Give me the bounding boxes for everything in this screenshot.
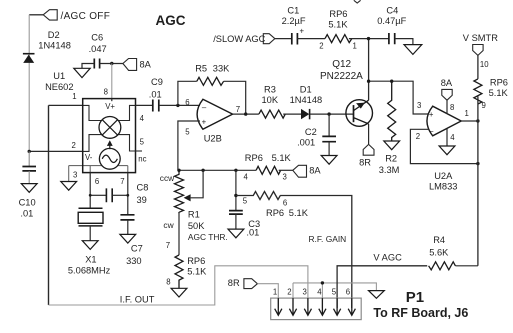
svg-text:R1: R1 bbox=[188, 209, 200, 219]
resistor RP6 pins 7-8 bbox=[175, 255, 183, 288]
diode D1 bbox=[301, 109, 309, 119]
svg-text:5.1K: 5.1K bbox=[272, 153, 292, 163]
svg-text:7: 7 bbox=[166, 241, 170, 250]
junction U2A feedback bbox=[476, 162, 479, 165]
svg-text:10K: 10K bbox=[262, 95, 279, 105]
svg-text:To RF Board, J6: To RF Board, J6 bbox=[373, 306, 468, 320]
svg-text:4: 4 bbox=[317, 288, 322, 297]
svg-text:1N4148: 1N4148 bbox=[290, 95, 323, 105]
svg-text:U2B: U2B bbox=[204, 134, 222, 144]
resistor R5 bbox=[197, 77, 224, 85]
svg-text:C8: C8 bbox=[137, 182, 149, 192]
oscillator of U1 bbox=[99, 148, 120, 169]
svg-text:V-: V- bbox=[85, 153, 93, 162]
capacitor C8 bbox=[90, 194, 106, 196]
wire U1 pin 2 bbox=[29, 150, 82, 152]
svg-text:Q12: Q12 bbox=[332, 59, 351, 70]
pin 5 nc stub bbox=[136, 150, 143, 152]
svg-text:2.2µF: 2.2µF bbox=[282, 16, 306, 26]
svg-text:D2: D2 bbox=[48, 30, 60, 40]
svg-text:cw: cw bbox=[163, 220, 174, 230]
junction U2A output bbox=[476, 119, 479, 122]
junction P1 pin 4 ground bbox=[321, 281, 324, 284]
wire U2A pin 2 feedback bbox=[410, 129, 478, 163]
capacitor C3 bbox=[229, 211, 243, 215]
ground under X1 bbox=[82, 241, 98, 250]
wire I.F. OUT route to P1 pin 3 bbox=[49, 266, 308, 308]
svg-text:6: 6 bbox=[95, 177, 99, 186]
svg-text:1: 1 bbox=[273, 288, 277, 297]
junction R1 wiper bbox=[201, 169, 204, 172]
svg-text:/AGC OFF: /AGC OFF bbox=[61, 11, 111, 22]
svg-text:C6: C6 bbox=[91, 33, 103, 43]
svg-text:6: 6 bbox=[283, 198, 287, 207]
svg-text:C2: C2 bbox=[305, 127, 317, 137]
mixer of U1 bbox=[99, 117, 121, 139]
ground pin 3 bbox=[61, 182, 77, 191]
svg-text:3: 3 bbox=[303, 288, 307, 297]
svg-text:C10: C10 bbox=[19, 197, 36, 207]
wire pin1 vertical to I.F. OUT bbox=[48, 105, 50, 305]
ground under C6 bbox=[74, 68, 90, 77]
svg-text:+: + bbox=[300, 27, 305, 36]
junction C6 node bbox=[110, 62, 113, 65]
diode D2 bbox=[23, 53, 35, 55]
svg-text:8R: 8R bbox=[228, 278, 240, 288]
svg-text:5.1K: 5.1K bbox=[328, 19, 348, 29]
ground RP6 pin 8 bbox=[171, 288, 187, 297]
svg-text:1N4148: 1N4148 bbox=[38, 40, 71, 50]
svg-text:–: – bbox=[202, 103, 207, 112]
svg-text:AGC: AGC bbox=[156, 13, 186, 28]
svg-text:8A: 8A bbox=[140, 60, 152, 70]
svg-text:6: 6 bbox=[346, 288, 350, 297]
wire pin 7 down bbox=[127, 173, 129, 215]
wire U1 pin 8 inner stub bbox=[111, 99, 113, 102]
svg-text:C7: C7 bbox=[131, 244, 143, 254]
wire U2A output bbox=[461, 120, 478, 122]
svg-text:RP6: RP6 bbox=[245, 153, 263, 163]
rail collector to U2A pin 3 bbox=[369, 81, 429, 114]
wire /AGC OFF to left rail bbox=[29, 14, 43, 16]
svg-text:+: + bbox=[202, 118, 207, 127]
svg-text:C4: C4 bbox=[386, 6, 398, 16]
wire C6 to 8A tag bbox=[100, 63, 123, 65]
svg-text:50K: 50K bbox=[188, 221, 205, 231]
svg-text:R.F. GAIN: R.F. GAIN bbox=[309, 234, 347, 244]
resistor R3 bbox=[259, 110, 285, 118]
U1 internal pin stubs bbox=[83, 105, 102, 120]
wire left vertical rail bbox=[28, 15, 30, 152]
svg-text:RP6: RP6 bbox=[187, 256, 205, 266]
ground under C4 bbox=[404, 45, 422, 55]
wire 8A node down to U1 pin 8 bbox=[111, 64, 113, 102]
svg-text:4: 4 bbox=[244, 172, 249, 181]
wire C9 to U2B pin 6 bbox=[159, 104, 200, 106]
svg-text:C9: C9 bbox=[151, 77, 163, 87]
svg-text:1: 1 bbox=[465, 109, 469, 118]
svg-text:3: 3 bbox=[283, 172, 287, 181]
svg-text:U1: U1 bbox=[53, 71, 65, 81]
svg-text:8: 8 bbox=[166, 277, 170, 286]
svg-text:7: 7 bbox=[236, 105, 240, 114]
svg-text:R4: R4 bbox=[433, 235, 445, 245]
wire U2A pin 4 to ground bbox=[446, 129, 448, 146]
connector 8A above U2A bbox=[442, 89, 452, 100]
svg-text:6: 6 bbox=[185, 98, 189, 107]
wire R1 to RP6 7-8 bbox=[178, 212, 180, 255]
junction C2 node bbox=[327, 112, 330, 115]
svg-text:5.1K: 5.1K bbox=[289, 208, 309, 218]
svg-text:RP6: RP6 bbox=[266, 208, 284, 218]
IC U1 box bbox=[83, 99, 136, 173]
svg-text:5: 5 bbox=[140, 137, 145, 146]
wire U1 pin 3 and internal bottom line bbox=[69, 165, 128, 167]
connector 8R below Q12 bbox=[363, 144, 374, 155]
wire U2A pin 8 bbox=[446, 100, 448, 114]
ground under C10 bbox=[21, 184, 37, 193]
svg-text:9: 9 bbox=[482, 101, 486, 110]
svg-text:I.F. OUT: I.F. OUT bbox=[120, 294, 155, 304]
svg-text:2: 2 bbox=[72, 141, 76, 150]
svg-text:R3: R3 bbox=[264, 85, 276, 95]
svg-text:330: 330 bbox=[126, 256, 142, 266]
svg-text:U2A: U2A bbox=[434, 171, 453, 181]
capacitor C2 bbox=[328, 114, 330, 136]
ground near P1 bbox=[369, 291, 385, 299]
svg-text:.01: .01 bbox=[246, 228, 259, 238]
wire U2B pin 5 bbox=[178, 121, 200, 170]
tag tip cut at top bbox=[354, 0, 361, 3]
resistor RP6 pins 5-6 bbox=[236, 192, 280, 200]
op-amp U2A bbox=[427, 106, 461, 136]
feedback loop R5 bbox=[178, 81, 197, 105]
svg-text:+: + bbox=[429, 110, 434, 119]
svg-text:R2: R2 bbox=[385, 153, 397, 163]
capacitor C7 bbox=[120, 215, 134, 220]
resistor R4 bbox=[429, 262, 456, 270]
ground under C2 bbox=[321, 156, 337, 165]
svg-text:.047: .047 bbox=[89, 44, 107, 54]
svg-text:8A: 8A bbox=[309, 166, 321, 176]
connector /AGC OFF bbox=[43, 10, 57, 20]
svg-text:2: 2 bbox=[416, 132, 420, 141]
junction C4 rail bbox=[367, 37, 370, 40]
svg-text:4: 4 bbox=[140, 114, 145, 123]
junction node pin 2 bbox=[28, 150, 31, 153]
svg-text:5.6K: 5.6K bbox=[429, 248, 449, 258]
wire Q12 emitter down bbox=[368, 124, 370, 144]
svg-text:5: 5 bbox=[332, 288, 337, 297]
svg-text:R5: R5 bbox=[195, 63, 207, 73]
wire 8R to P1 pin 1 bbox=[257, 284, 278, 308]
wire to C1 bbox=[275, 38, 292, 40]
ground U2A pin 4 bbox=[439, 146, 455, 155]
connector 8A mid bbox=[293, 165, 307, 177]
wire U2B output bbox=[233, 113, 259, 115]
svg-text:2: 2 bbox=[319, 41, 323, 50]
svg-text:5.1K: 5.1K bbox=[489, 88, 509, 98]
wire U1 pin 1 bbox=[49, 104, 83, 106]
svg-text:.001: .001 bbox=[297, 137, 315, 147]
ground under C3 bbox=[228, 229, 244, 238]
svg-text:D1: D1 bbox=[300, 85, 312, 95]
svg-text:V SMTR: V SMTR bbox=[463, 33, 498, 43]
svg-text:3: 3 bbox=[417, 101, 421, 110]
svg-text:AGC THR.: AGC THR. bbox=[188, 232, 228, 242]
AGC threshold line from U2B pin5 bbox=[178, 169, 256, 171]
svg-text:8A: 8A bbox=[441, 78, 453, 88]
arrow oscillator to mixer bbox=[109, 146, 111, 150]
connector 8A bbox=[123, 59, 137, 71]
svg-text:33K: 33K bbox=[213, 63, 230, 73]
wire pin 6 down bbox=[89, 173, 91, 209]
svg-text:5: 5 bbox=[243, 197, 248, 206]
svg-text:RP6: RP6 bbox=[490, 77, 508, 87]
right vertical with RP6 pins 10-9 bbox=[477, 55, 479, 79]
resistor RP6 pins 4-3 bbox=[256, 166, 281, 174]
svg-text:5: 5 bbox=[185, 128, 190, 137]
svg-text:LM833: LM833 bbox=[429, 182, 457, 192]
wire Q12 collector up bbox=[368, 39, 370, 101]
svg-text:PN2222A: PN2222A bbox=[320, 71, 363, 82]
op-amp U2B bbox=[197, 99, 233, 129]
wire D1 to Q12 base bbox=[310, 113, 354, 115]
svg-text:8R: 8R bbox=[359, 158, 371, 168]
svg-text:10: 10 bbox=[480, 60, 489, 69]
svg-text:3.3M: 3.3M bbox=[379, 165, 400, 175]
junction RP6 5-6 line bbox=[234, 194, 237, 197]
junction AGC THR node bbox=[177, 169, 180, 172]
svg-text:X1: X1 bbox=[85, 255, 96, 265]
svg-text:C1: C1 bbox=[287, 6, 299, 16]
svg-text:7: 7 bbox=[120, 177, 124, 186]
resistor R2 bbox=[388, 81, 396, 141]
svg-text:/SLOW AGC: /SLOW AGC bbox=[213, 34, 265, 44]
svg-text:3: 3 bbox=[73, 171, 77, 180]
junction C3 branch bbox=[234, 169, 237, 172]
P1 pin arrows bbox=[275, 298, 356, 315]
svg-text:39: 39 bbox=[137, 195, 147, 205]
svg-text:V+: V+ bbox=[105, 102, 115, 111]
crystal X1 bbox=[79, 207, 103, 209]
capacitor C10 bbox=[28, 151, 30, 166]
svg-text:.01: .01 bbox=[20, 208, 33, 218]
svg-text:5.1K: 5.1K bbox=[187, 267, 207, 277]
junction U2B output bbox=[244, 112, 247, 115]
svg-text:.01: .01 bbox=[149, 90, 162, 100]
svg-text:0.47µF: 0.47µF bbox=[377, 16, 406, 26]
svg-text:–: – bbox=[429, 126, 434, 135]
svg-text:V AGC: V AGC bbox=[373, 252, 402, 262]
junction collector rail bbox=[367, 80, 370, 83]
svg-text:P1: P1 bbox=[406, 289, 424, 306]
connector P1 header bbox=[271, 298, 362, 320]
svg-text:4: 4 bbox=[450, 133, 455, 142]
junction R2 top bbox=[390, 80, 393, 83]
svg-text:1: 1 bbox=[353, 41, 357, 50]
junction U2B pin 6 bbox=[176, 104, 179, 107]
ground under C7 bbox=[120, 234, 136, 243]
svg-text:8: 8 bbox=[450, 103, 454, 112]
svg-text:5.068MHz: 5.068MHz bbox=[68, 266, 111, 276]
svg-text:NE602: NE602 bbox=[45, 82, 73, 92]
wire RP6 6 to P1 pin 6 (R.F. GAIN) bbox=[280, 196, 352, 309]
svg-text:1: 1 bbox=[72, 92, 76, 101]
wire ground bus to P1 pins 2,4 bbox=[293, 283, 376, 291]
svg-text:RP6: RP6 bbox=[329, 9, 347, 19]
ground under R2 bbox=[384, 141, 400, 150]
svg-text:8: 8 bbox=[104, 88, 108, 97]
svg-text:ccw: ccw bbox=[160, 173, 175, 183]
svg-text:nc: nc bbox=[138, 155, 146, 164]
svg-text:2: 2 bbox=[287, 288, 291, 297]
branch down to RP6 5-6 line and C3 bbox=[235, 170, 237, 210]
